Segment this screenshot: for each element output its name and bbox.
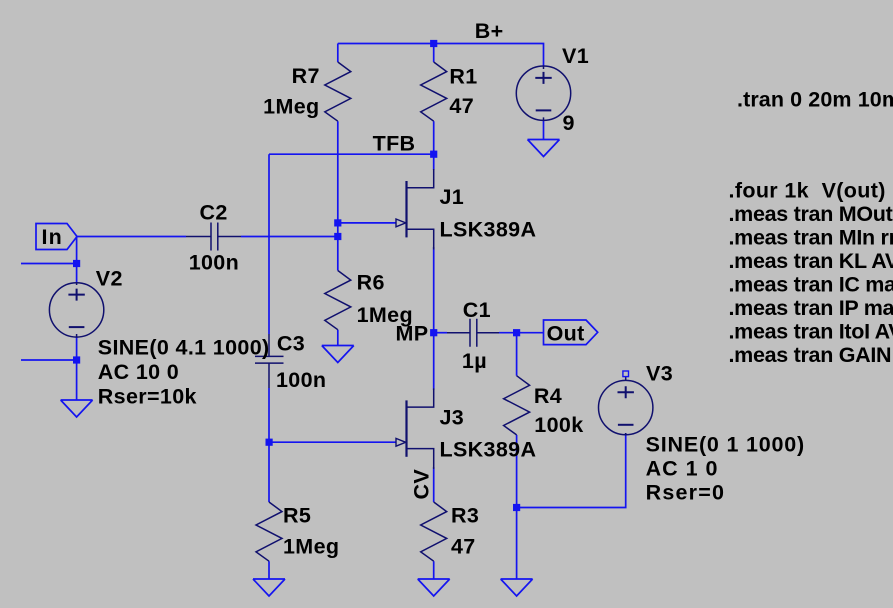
svg-text:Out: Out: [547, 321, 585, 345]
svg-text:J3: J3: [440, 406, 465, 430]
wire R7 top lead: [337, 44, 339, 63]
svg-text:.meas tran KL AVG V(out): .meas tran KL AVG V(out): [729, 249, 893, 273]
wire MP to C1: [434, 332, 447, 334]
node V3 return junction: [513, 504, 520, 511]
svg-text:47: 47: [449, 94, 474, 118]
svg-text:In: In: [42, 225, 64, 249]
resistor R3: [421, 502, 447, 561]
node V3 plus pin square: [623, 371, 629, 377]
node V2 minus junction: [73, 356, 80, 363]
svg-text:CV: CV: [410, 469, 434, 500]
wire V1 minus lead: [543, 120, 545, 140]
wire R6 bottom lead: [337, 330, 339, 346]
ground under V3 return: [501, 579, 533, 596]
resistor R4: [504, 376, 530, 435]
svg-text:.meas tran MOut RMS V(out): .meas tran MOut RMS V(out): [729, 202, 893, 226]
port flag Out: [544, 320, 598, 345]
wire R5 top lead: [268, 442, 270, 502]
svg-text:R7: R7: [292, 64, 320, 88]
transistor J3: [396, 388, 434, 469]
voltage source V3: [599, 377, 653, 435]
svg-text:100n: 100n: [276, 368, 326, 392]
capacitor C1: [447, 319, 499, 347]
svg-text:R3: R3: [451, 504, 479, 528]
node B+ junction: [430, 40, 437, 47]
svg-text:.tran 0 20m 10m: .tran 0 20m 10m: [737, 87, 893, 111]
svg-text:1Meg: 1Meg: [263, 95, 319, 119]
svg-text:TFB: TFB: [373, 131, 416, 155]
svg-text:LSK389A: LSK389A: [440, 218, 537, 242]
wire C3 to R5 node: [268, 388, 270, 442]
wire J1 gate: [338, 222, 396, 224]
wire J3 drain to MP: [433, 333, 435, 390]
capacitor C3: [255, 334, 284, 388]
svg-text:.meas tran IC max I(R1): .meas tran IC max I(R1): [729, 273, 893, 297]
wire R5 bottom lead: [268, 561, 270, 579]
svg-text:C3: C3: [277, 331, 305, 355]
svg-text:AC 1 0: AC 1 0: [646, 456, 719, 480]
voltage source V2: [49, 283, 103, 337]
svg-text:SINE(0 4.1 1000): SINE(0 4.1 1000): [98, 336, 270, 360]
wire R1 top lead: [433, 44, 435, 63]
ground under R3: [418, 579, 450, 596]
wire C2 to gate node: [241, 236, 338, 238]
svg-text:9: 9: [563, 111, 575, 135]
resistor R6: [325, 271, 351, 330]
wire R1 bottom lead: [433, 121, 435, 154]
resistor R1: [421, 62, 447, 121]
wire R4 bottom lead: [516, 435, 518, 508]
wire C1 to Out node: [499, 332, 517, 334]
svg-text:V3: V3: [646, 362, 673, 386]
svg-text:V2: V2: [96, 266, 123, 290]
svg-text:MP: MP: [396, 322, 429, 346]
wire J3 gate net: [269, 441, 396, 443]
wire R7 to R6 vertical: [337, 121, 339, 270]
svg-text:.meas tran ItoI AVG I(V1): .meas tran ItoI AVG I(V1): [729, 320, 893, 344]
svg-text:V1: V1: [562, 44, 589, 68]
node In junction: [334, 233, 341, 240]
svg-text:C2: C2: [200, 201, 228, 225]
svg-text:C1: C1: [463, 298, 491, 322]
node J1 gate junction: [334, 219, 341, 226]
wire V2 minus lead: [76, 337, 78, 400]
node V2 plus junction: [73, 260, 80, 267]
svg-text:Rser=10k: Rser=10k: [98, 384, 197, 408]
resistor R5: [256, 502, 282, 561]
node MP junction: [430, 329, 437, 336]
capacitor C2: [186, 223, 241, 251]
ground under V2: [61, 400, 93, 417]
svg-text:R5: R5: [283, 504, 311, 528]
wire B+ rail: [338, 44, 544, 67]
port flag In: [36, 224, 77, 250]
svg-text:1Meg: 1Meg: [283, 535, 339, 559]
svg-text:SINE(0 1 1000): SINE(0 1 1000): [646, 432, 805, 456]
svg-text:J1: J1: [440, 185, 465, 209]
ground under R5: [253, 579, 285, 596]
ground under V1: [528, 140, 560, 157]
node R5 junction: [266, 439, 273, 446]
wire V3 node to ground: [516, 508, 518, 580]
svg-text:R4: R4: [534, 384, 562, 408]
wire J3 source to R3: [433, 467, 435, 502]
svg-text:R1: R1: [449, 65, 477, 89]
wire left stub upper: [21, 263, 77, 265]
node Out junction: [513, 329, 520, 336]
wire R3 bottom lead: [433, 561, 435, 579]
svg-text:R6: R6: [357, 270, 385, 294]
svg-text:100k: 100k: [534, 413, 583, 437]
transistor J1: [396, 169, 434, 250]
wire V3 bottom: [517, 433, 626, 508]
wire Out node to port: [517, 332, 544, 334]
svg-text:.four 1k V(out): .four 1k V(out): [729, 179, 886, 203]
svg-text:100n: 100n: [189, 250, 239, 274]
svg-text:LSK389A: LSK389A: [440, 438, 537, 462]
svg-text:.meas tran GAIN PARAM MOut/MIn: .meas tran GAIN PARAM MOut/MIn: [729, 343, 893, 367]
wire J1 drain: [433, 154, 435, 170]
svg-text:47: 47: [451, 535, 476, 559]
svg-text:Rser=0: Rser=0: [646, 480, 726, 504]
wire TFB net: [269, 153, 434, 155]
wire In net: [77, 236, 186, 238]
svg-text:.meas tran MIn rms V(in): .meas tran MIn rms V(in): [729, 226, 893, 250]
resistor R7: [325, 62, 351, 121]
svg-text:.meas tran IP max I(R3): .meas tran IP max I(R3): [729, 296, 893, 320]
svg-text:B+: B+: [475, 19, 504, 43]
ground under R6: [322, 346, 354, 363]
svg-text:AC 10 0: AC 10 0: [98, 360, 179, 384]
wire In port to V2: [76, 237, 78, 283]
wire R4 top lead: [516, 333, 518, 376]
voltage source V1: [516, 66, 570, 120]
node TFB junction: [430, 151, 437, 158]
wire TFB to C3 vertical: [268, 154, 270, 334]
svg-text:1µ: 1µ: [462, 349, 487, 373]
wire left stub lower: [21, 359, 77, 361]
wire J1 source to MP: [433, 247, 435, 333]
